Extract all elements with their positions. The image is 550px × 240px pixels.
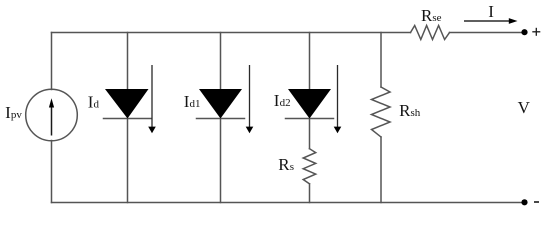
- svg-text:R: R: [399, 101, 411, 120]
- svg-text:s: s: [290, 161, 294, 173]
- svg-text:V: V: [518, 98, 531, 117]
- svg-text:I: I: [488, 2, 494, 21]
- svg-text:R: R: [421, 6, 433, 25]
- svg-text:sh: sh: [411, 107, 421, 119]
- svg-text:d2: d2: [280, 97, 291, 109]
- svg-text:R: R: [278, 155, 290, 174]
- svg-text:d1: d1: [190, 98, 201, 110]
- svg-text:pv: pv: [11, 109, 23, 121]
- svg-text:d: d: [94, 99, 100, 111]
- svg-text:se: se: [432, 12, 441, 24]
